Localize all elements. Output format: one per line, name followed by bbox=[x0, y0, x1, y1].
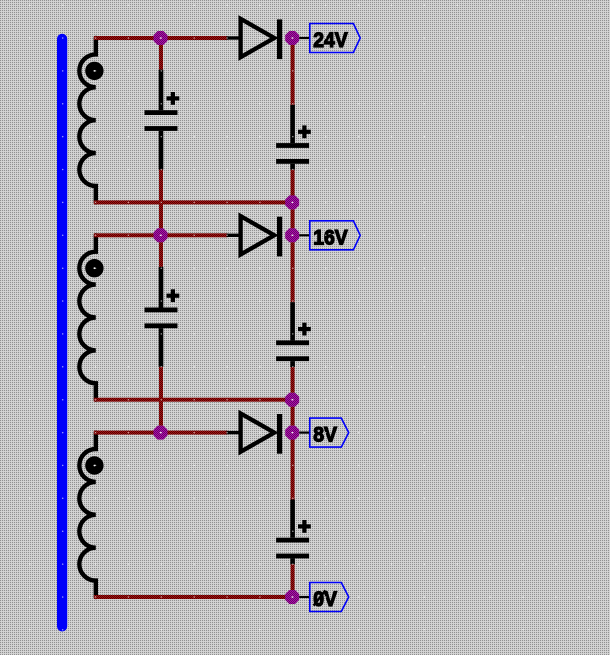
junction node s2 bottom bbox=[285, 393, 299, 407]
wire section 2 bottom bbox=[94, 398, 293, 402]
wire stub to net flag 16V bbox=[299, 234, 310, 236]
junction node 16V out bbox=[285, 228, 299, 242]
wire mid column lower s1 bbox=[159, 170, 163, 229]
wire right column lower s1 bbox=[291, 170, 295, 196]
polarity dot L3 bbox=[85, 456, 103, 474]
svg-text:8V: 8V bbox=[313, 424, 337, 447]
svg-text:24V: 24V bbox=[313, 29, 347, 52]
capacitor C1 bbox=[145, 70, 178, 170]
junction node 8V out bbox=[285, 426, 299, 440]
plus polarity mark C1 bbox=[167, 92, 180, 105]
diode D3 bbox=[227, 413, 283, 453]
wire right column link s2 bbox=[291, 407, 295, 426]
wire right column lower s3 bbox=[291, 564, 295, 590]
junction node s1 bottom bbox=[285, 195, 299, 209]
polarity dot L1 bbox=[85, 62, 103, 80]
wire mid column upper s2 bbox=[159, 242, 163, 267]
svg-text:16V: 16V bbox=[313, 226, 347, 249]
wire right column lower s2 bbox=[291, 367, 295, 393]
net flag 8V bbox=[310, 418, 349, 447]
polarity dot L2 bbox=[85, 259, 103, 277]
net flag 0V bbox=[310, 583, 349, 612]
junction node 16V mid bbox=[154, 228, 168, 242]
transformer core bar bbox=[57, 34, 67, 632]
wire right column link s1 bbox=[291, 209, 295, 228]
capacitor C6 bbox=[276, 500, 309, 565]
wire section 2 top bbox=[94, 233, 228, 237]
wire right column upper s3 bbox=[291, 440, 295, 500]
junction node 24V out bbox=[285, 31, 299, 45]
wire right column upper s2 bbox=[291, 242, 295, 302]
net flag 24V bbox=[310, 24, 360, 53]
wire stub to net flag 0V bbox=[299, 596, 310, 598]
wire section 1 top bbox=[94, 36, 228, 40]
capacitor C4 bbox=[276, 302, 309, 367]
plus polarity mark C6 bbox=[298, 520, 311, 533]
wire stub to net flag 24V bbox=[299, 37, 310, 39]
capacitor C3 bbox=[145, 267, 178, 367]
wire section 3 bottom bbox=[94, 595, 293, 599]
wire mid column upper s1 bbox=[159, 45, 163, 70]
junction node 0V bbox=[285, 590, 299, 604]
transformer winding L1 bbox=[79, 38, 95, 202]
wire section 1 bottom bbox=[94, 200, 293, 204]
junction node 8V mid bbox=[154, 426, 168, 440]
transformer winding L2 bbox=[79, 235, 95, 399]
transformer winding L3 bbox=[79, 433, 95, 597]
plus polarity mark C4 bbox=[298, 323, 311, 336]
wire right column upper s1 bbox=[291, 45, 295, 105]
wire section 3 top bbox=[94, 431, 228, 435]
diode D1 bbox=[227, 19, 283, 59]
net flag 16V bbox=[310, 221, 360, 250]
capacitor C2 bbox=[276, 105, 309, 170]
junction node 24V bbox=[154, 31, 168, 45]
wire mid column lower s2 bbox=[159, 367, 163, 426]
diode D2 bbox=[227, 216, 283, 256]
plus polarity mark C3 bbox=[167, 289, 180, 302]
plus polarity mark C2 bbox=[298, 125, 311, 138]
wire stub to net flag 8V bbox=[299, 432, 310, 434]
